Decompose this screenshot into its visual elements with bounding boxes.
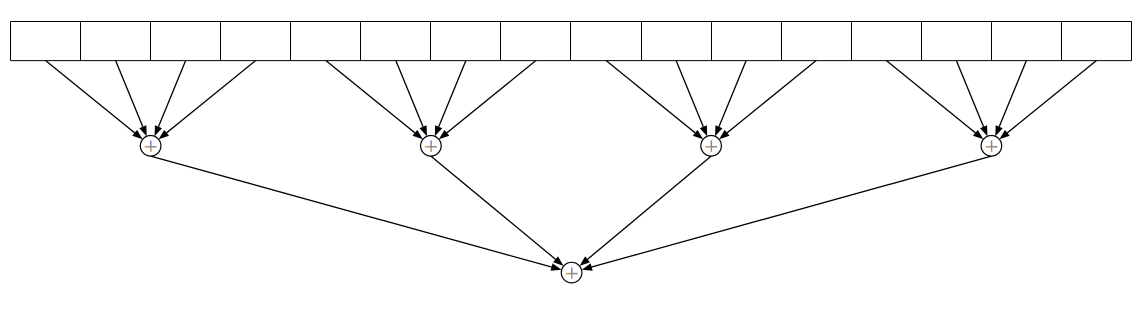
adder node S1: circle with plus <box>140 136 161 157</box>
arrow: cell 15 to adder S4 <box>995 61 1026 137</box>
arrow: cell 13 to adder S4 <box>886 61 983 140</box>
arrow: cell 10 to adder S3 <box>676 61 707 137</box>
adder node S3: circle with plus <box>701 136 722 157</box>
arrow: cell 7 to adder S2 <box>435 61 466 137</box>
arrow: cell 12 to adder S3 <box>719 61 816 140</box>
arrow: cell 4 to adder S1 <box>159 61 256 140</box>
arrow: cell 3 to adder S1 <box>155 61 186 137</box>
arrow: adder S4 to final adder <box>582 156 992 271</box>
arrow: cell 14 to adder S4 <box>956 61 987 137</box>
arrow: adder S1 to final adder <box>151 156 562 271</box>
arrow: cell 9 to adder S3 <box>606 61 703 140</box>
input array: rectangle of 16 cells <box>11 22 1132 61</box>
arrow: adder S2 to final adder <box>431 156 564 266</box>
arrow: cell 2 to adder S1 <box>116 61 147 137</box>
adder node S4: circle with plus <box>981 136 1002 157</box>
arrow: cell 16 to adder S4 <box>999 61 1096 140</box>
arrow: adder S3 to final adder <box>580 156 711 266</box>
arrow: cell 6 to adder S2 <box>396 61 427 137</box>
adder node S2: circle with plus <box>421 136 442 157</box>
arrow: cell 8 to adder S2 <box>439 61 536 140</box>
final adder node: circle with plus <box>561 262 582 283</box>
arrow: cell 11 to adder S3 <box>715 61 746 137</box>
arrow: cell 1 to adder S1 <box>46 61 143 140</box>
arrow: cell 5 to adder S2 <box>326 61 423 140</box>
